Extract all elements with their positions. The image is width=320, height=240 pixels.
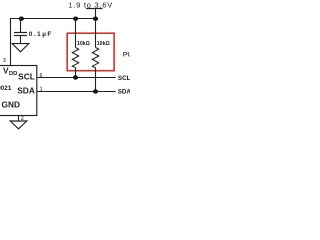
svg-text:5: 5 <box>3 58 6 64</box>
svg-text:PU: PU <box>123 51 130 58</box>
svg-text:GND: GND <box>2 100 20 110</box>
node junction dot SCL/R1 <box>73 75 78 79</box>
svg-text:SCL: SCL <box>118 75 130 82</box>
node junction dot at capacitor tap <box>19 17 24 21</box>
resistor R2 <box>92 48 98 68</box>
svg-text:SCL: SCL <box>18 72 35 82</box>
node junction dot SDA/R2 <box>93 89 98 93</box>
svg-text:SDA: SDA <box>17 85 35 95</box>
wire: SCL bus <box>37 77 116 79</box>
node junction dot at R1 tap <box>73 17 78 21</box>
svg-text:6: 6 <box>40 73 43 79</box>
supply terminal bar <box>86 8 103 10</box>
svg-text:10kΩ: 10kΩ <box>77 41 90 47</box>
svg-text:SDA: SDA <box>118 88 130 95</box>
wire: R2 top lead <box>95 19 97 48</box>
red highlight box around pull-up resistors <box>67 33 114 70</box>
wire: SDA bus <box>37 91 116 93</box>
wire: supply drop to rail <box>95 9 97 19</box>
wire: R1 bottom lead to SCL <box>75 68 77 78</box>
ground symbol at GND pin <box>10 121 27 129</box>
svg-text:0.1µF: 0.1µF <box>29 31 53 38</box>
wire: GND pin lead <box>18 116 20 121</box>
wire: cap bottom lead <box>20 36 22 44</box>
ground symbol at capacitor <box>12 44 29 52</box>
resistor R1 <box>72 48 78 68</box>
IC U1 body <box>0 66 37 116</box>
svg-text:10kΩ: 10kΩ <box>97 41 110 47</box>
capacitor C1 plates <box>14 33 27 36</box>
wire: R2 bottom lead to SDA <box>95 68 97 92</box>
svg-text:DD: DD <box>9 71 18 77</box>
svg-text:ISL29021: ISL29021 <box>0 85 12 92</box>
background <box>0 0 130 130</box>
wire: cap top lead <box>20 19 22 33</box>
wire: R1 top lead <box>75 19 77 48</box>
wire: top VDD rail and left drop to pin 5 <box>11 19 97 66</box>
node junction dot at supply entry <box>93 17 98 21</box>
